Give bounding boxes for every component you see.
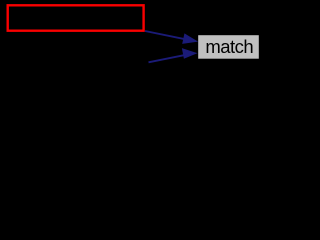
- wire: edge 2 from hidden node to match: [149, 55, 185, 62]
- node: current function (red outlined, label hidden on black): [8, 5, 144, 30]
- node: match (gray box): [198, 35, 259, 59]
- wire: edge 1 from current node to match: [145, 31, 185, 39]
- arrowhead of edge 2: [182, 49, 196, 59]
- svg-text:match: match: [205, 36, 253, 57]
- arrowhead of edge 1: [183, 34, 197, 43]
